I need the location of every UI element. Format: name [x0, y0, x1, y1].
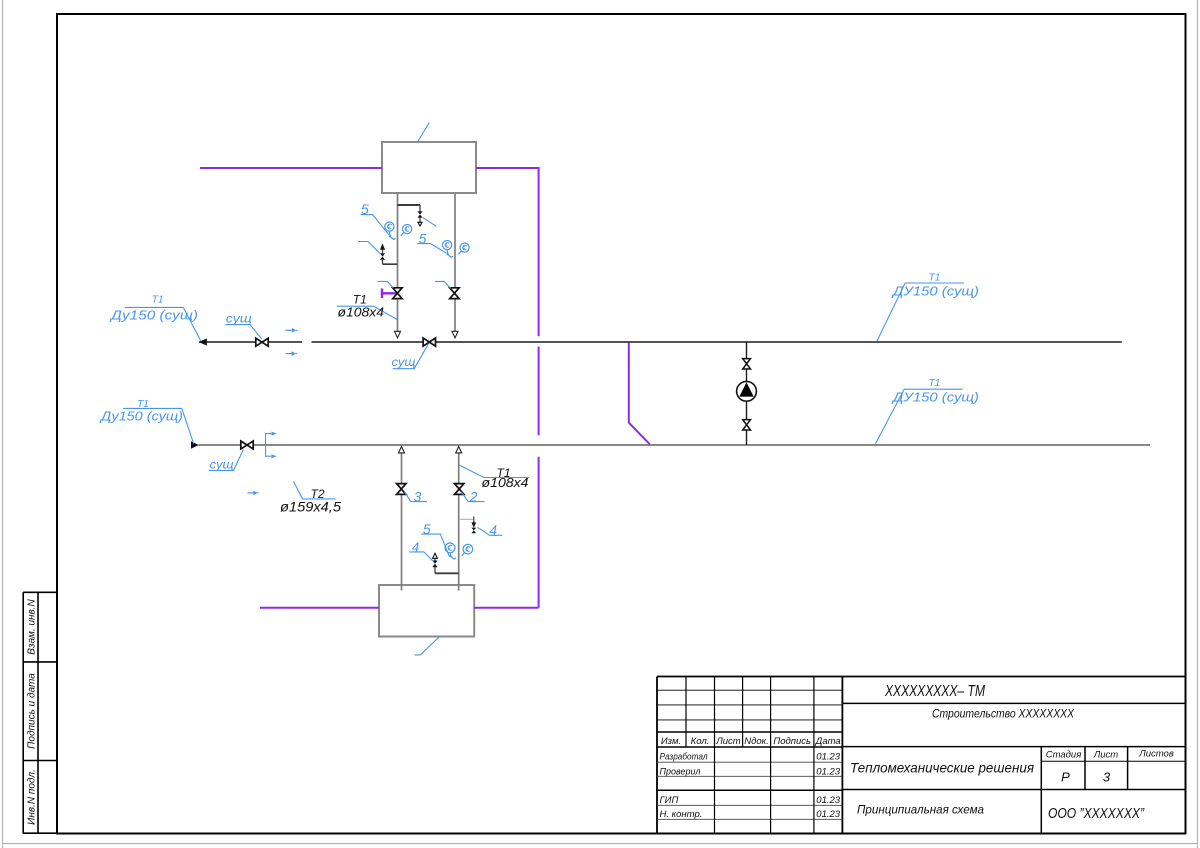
svg-text:01.23: 01.23 — [816, 767, 840, 778]
riser pipe left (bottom unit) — [401, 453, 403, 591]
bottom drain piping — [435, 558, 459, 573]
svg-text:01.23: 01.23 — [816, 795, 840, 806]
riser pipe T1 right (top unit) — [454, 194, 456, 332]
leader T1 Du150 right-top — [877, 283, 964, 341]
bracket arrow heads — [271, 432, 276, 436]
svg-text:Кол.: Кол. — [691, 736, 710, 747]
return pipe end arrow — [191, 441, 199, 448]
valve on supply main mid — [423, 338, 435, 346]
left margin strip boxes — [23, 592, 57, 833]
svg-text:Nдок.: Nдок. — [744, 736, 769, 747]
top air vent stub line — [398, 205, 421, 222]
revision table column lines — [686, 677, 814, 834]
bottom drain open arrow up — [433, 553, 438, 558]
flow arrow below supply gap — [286, 351, 297, 356]
valve on riser T1 left — [393, 288, 402, 299]
riser arrow into main — [395, 331, 401, 338]
leader T1 Du150 bottom-left — [123, 408, 193, 443]
top air vent open arrow — [418, 222, 422, 226]
leader riser valve left — [378, 281, 394, 288]
svg-text:Разработал: Разработал — [660, 752, 709, 763]
svg-text:Ду150 (сущ): Ду150 (сущ) — [99, 409, 183, 424]
svg-text:Строительство ХХХХХХХХ: Строительство ХХХХХХХХ — [932, 707, 1075, 721]
leader T1 o108x4 top label — [337, 306, 398, 319]
svg-text:сущ: сущ — [392, 355, 416, 369]
valve on supply main left — [256, 338, 268, 346]
revision table header lines — [657, 732, 842, 747]
leader top air vent — [423, 218, 437, 227]
heat exchanger unit top — [382, 142, 476, 193]
riser arrow from main — [456, 446, 462, 453]
svg-text:Взам. инв.N: Взам. инв.N — [27, 598, 38, 654]
branch bracket on return — [265, 433, 267, 457]
svg-text:Проверил: Проверил — [660, 767, 702, 778]
pressure gauge A2 — [401, 225, 412, 236]
purple capped stub at valve — [382, 289, 396, 299]
leader T1 Du150 right-bottom — [875, 389, 962, 444]
title block header texts — [661, 736, 841, 747]
flow arrow above supply gap — [285, 328, 297, 333]
svg-text:5: 5 — [423, 521, 431, 537]
svg-text:Р: Р — [1061, 770, 1070, 785]
svg-text:Тепломеханические решения: Тепломеханические решения — [850, 760, 1034, 776]
leader T1 o108x4 bottom label — [459, 465, 529, 478]
svg-text:2: 2 — [469, 488, 478, 504]
pump branch line lower — [746, 401, 748, 445]
pressure gauge C2 — [462, 544, 473, 556]
svg-text:ХХХХХХХХХ– ТМ: ХХХХХХХХХ– ТМ — [884, 683, 985, 700]
bottom drain valve — [432, 561, 437, 568]
svg-text:Т1: Т1 — [929, 378, 941, 389]
svg-text:ООО ”ХХХХХХХ”: ООО ”ХХХХХХХ” — [1048, 805, 1145, 822]
leader pos 5 bottom — [421, 534, 449, 556]
svg-text:Изм.: Изм. — [661, 736, 681, 747]
revision table thin row lines — [657, 690, 842, 720]
svg-text:01.23: 01.23 — [816, 752, 840, 763]
bottom vent stub line — [459, 518, 474, 520]
valve on riser T1 right — [450, 288, 459, 299]
riser pipe T1 left (top unit) — [397, 194, 399, 332]
svg-text:Т1: Т1 — [929, 273, 941, 284]
svg-text:5: 5 — [419, 230, 427, 246]
svg-text:ДУ150 (сущ): ДУ150 (сущ) — [891, 285, 979, 299]
leader T1 Du150 top-left — [125, 307, 201, 341]
svg-text:5: 5 — [361, 201, 369, 217]
svg-text:01.23: 01.23 — [816, 809, 840, 820]
leader sushch mid valve — [393, 344, 429, 369]
svg-text:Ду150 (сущ): Ду150 (сущ) — [109, 308, 198, 323]
thermometer gauge A1 — [385, 222, 396, 239]
leader pos 3 — [404, 492, 427, 502]
leader pos 2 — [461, 492, 484, 502]
svg-text:Инв.N подл.: Инв.N подл. — [27, 769, 38, 825]
supply pipe end arrow — [199, 338, 207, 345]
bottom vent arrow down — [471, 522, 476, 527]
riser arrow from main — [399, 446, 405, 453]
leader pos 4 left — [409, 552, 432, 561]
top drain valve — [380, 253, 385, 259]
svg-text:сущ: сущ — [226, 311, 252, 325]
svg-text:Подпись и дата: Подпись и дата — [27, 673, 38, 749]
pump branch valve upper — [743, 359, 751, 369]
pump circle — [737, 381, 757, 401]
main return pipe — [199, 444, 1151, 446]
leader sushch bottom-left — [209, 449, 243, 470]
svg-text:Т1: Т1 — [152, 294, 164, 305]
svg-text:Дата: Дата — [815, 736, 841, 747]
leader riser valve right — [435, 281, 451, 288]
leader sushch top-left — [225, 325, 261, 339]
svg-text:Подпись: Подпись — [773, 736, 811, 747]
svg-text:3: 3 — [414, 488, 422, 504]
signature rows texts — [660, 752, 841, 820]
leader top drain — [358, 242, 380, 254]
leader pos 4 right — [478, 527, 503, 535]
main supply pipe T1 — [199, 341, 1122, 343]
purple pipework — [200, 167, 650, 608]
right section divider lines — [842, 703, 1185, 833]
riser arrow into main — [452, 331, 458, 338]
valve on bottom riser left — [397, 484, 406, 495]
thermometer gauge B1 — [443, 241, 454, 258]
title block outer box — [657, 677, 1186, 834]
valve on return main — [241, 441, 253, 449]
leader T2 o159x4,5 label — [294, 481, 336, 499]
top drain piping — [383, 250, 398, 265]
svg-text:Стадия: Стадия — [1046, 750, 1082, 761]
bottom vent valve — [471, 528, 476, 534]
svg-text:ø108х4: ø108х4 — [482, 475, 529, 490]
svg-text:Лист: Лист — [1093, 750, 1119, 761]
pump branch line upper — [746, 342, 748, 382]
svg-text:Принципиальная схема: Принципиальная схема — [857, 803, 984, 817]
top air vent valve — [417, 211, 422, 217]
svg-text:Н. контр.: Н. контр. — [660, 809, 703, 820]
svg-text:ø159х4,5: ø159х4,5 — [280, 500, 342, 515]
stage/sheet headers — [1046, 749, 1174, 761]
pump branch valve lower — [743, 420, 751, 430]
svg-text:Листов: Листов — [1138, 749, 1174, 760]
riser pipe right (bottom unit) — [458, 453, 460, 591]
svg-text:сущ: сущ — [210, 458, 234, 472]
leader pos 5 top-left — [361, 215, 389, 235]
svg-text:3: 3 — [1103, 770, 1111, 785]
top drain arrow up — [380, 243, 385, 249]
pump impeller triangle — [739, 382, 753, 396]
leader bottom unit — [415, 636, 441, 655]
svg-text:Лист: Лист — [715, 736, 741, 747]
svg-text:ДУ150 (сущ): ДУ150 (сущ) — [891, 391, 979, 405]
leader pos 5 top-right — [418, 244, 447, 254]
thermometer gauge C1 — [445, 543, 456, 559]
svg-text:4: 4 — [490, 523, 498, 538]
signature row lines — [657, 762, 842, 819]
valve on bottom riser right — [455, 484, 464, 495]
svg-text:ГИП: ГИП — [660, 795, 679, 806]
svg-text:4: 4 — [412, 540, 419, 555]
svg-text:ø108х4: ø108х4 — [338, 305, 385, 320]
title block (stamp) — [657, 677, 1186, 834]
flow arrow near T2 label — [248, 491, 259, 496]
pressure gauge B2 — [458, 243, 469, 254]
leader top unit — [417, 123, 429, 142]
heat exchanger unit bottom — [379, 585, 474, 637]
